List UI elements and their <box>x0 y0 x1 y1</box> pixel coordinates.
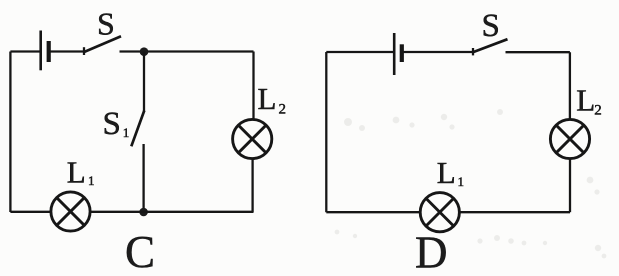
lamp L2 right circuit <box>550 119 589 158</box>
svg-text:1: 1 <box>88 173 95 188</box>
node top junction <box>140 47 149 56</box>
svg-text:L: L <box>67 154 86 189</box>
lamp L1 right circuit <box>420 193 459 232</box>
switch S contact tick <box>83 47 85 55</box>
svg-text:S: S <box>97 6 115 42</box>
svg-text:2: 2 <box>594 103 602 119</box>
wire switch to top-right corner <box>120 50 254 52</box>
faint scan noise <box>335 109 607 258</box>
wire battery to switch D <box>402 51 473 53</box>
svg-text:1: 1 <box>123 125 130 140</box>
wire right edge lower C <box>251 159 253 212</box>
wire left edge D <box>325 52 327 212</box>
wire switch to top-right corner D <box>506 51 570 53</box>
svg-text:S: S <box>482 8 500 44</box>
svg-text:C: C <box>125 227 155 271</box>
wire bottom left segment C <box>10 211 51 213</box>
lamp L1 left circuit <box>51 192 90 231</box>
svg-text:S: S <box>103 106 121 142</box>
battery BT1 long plate <box>39 31 42 71</box>
battery BT2 short plate <box>400 44 404 62</box>
wire right edge upper C <box>252 52 254 120</box>
wire right edge lower D <box>569 159 571 213</box>
svg-text:L: L <box>576 82 595 117</box>
battery BT1 short plate <box>47 41 51 62</box>
wire bottom left segment D <box>326 211 420 213</box>
battery BT2 long plate <box>393 33 396 75</box>
switch S1 blade <box>131 111 144 147</box>
wire middle branch upper <box>143 52 145 113</box>
wire right edge upper D <box>569 52 571 119</box>
switch S blade D <box>473 39 508 52</box>
switch S blade <box>84 36 122 52</box>
svg-text:L: L <box>258 81 277 116</box>
wire bottom right segment C <box>90 211 254 213</box>
svg-text:L: L <box>437 155 456 190</box>
wire top left to battery D <box>326 51 394 53</box>
svg-text:2: 2 <box>279 102 287 118</box>
wire bottom right segment D <box>459 211 570 213</box>
wire top left to battery <box>10 50 40 52</box>
wire battery to switch S <box>49 50 84 52</box>
wire middle branch lower <box>142 144 144 212</box>
node bottom junction <box>139 208 148 217</box>
switch S contact tick D <box>472 48 474 55</box>
svg-text:1: 1 <box>458 174 465 189</box>
wire left edge C <box>9 52 11 213</box>
svg-text:D: D <box>415 228 448 272</box>
lamp L2 left circuit <box>233 119 272 158</box>
